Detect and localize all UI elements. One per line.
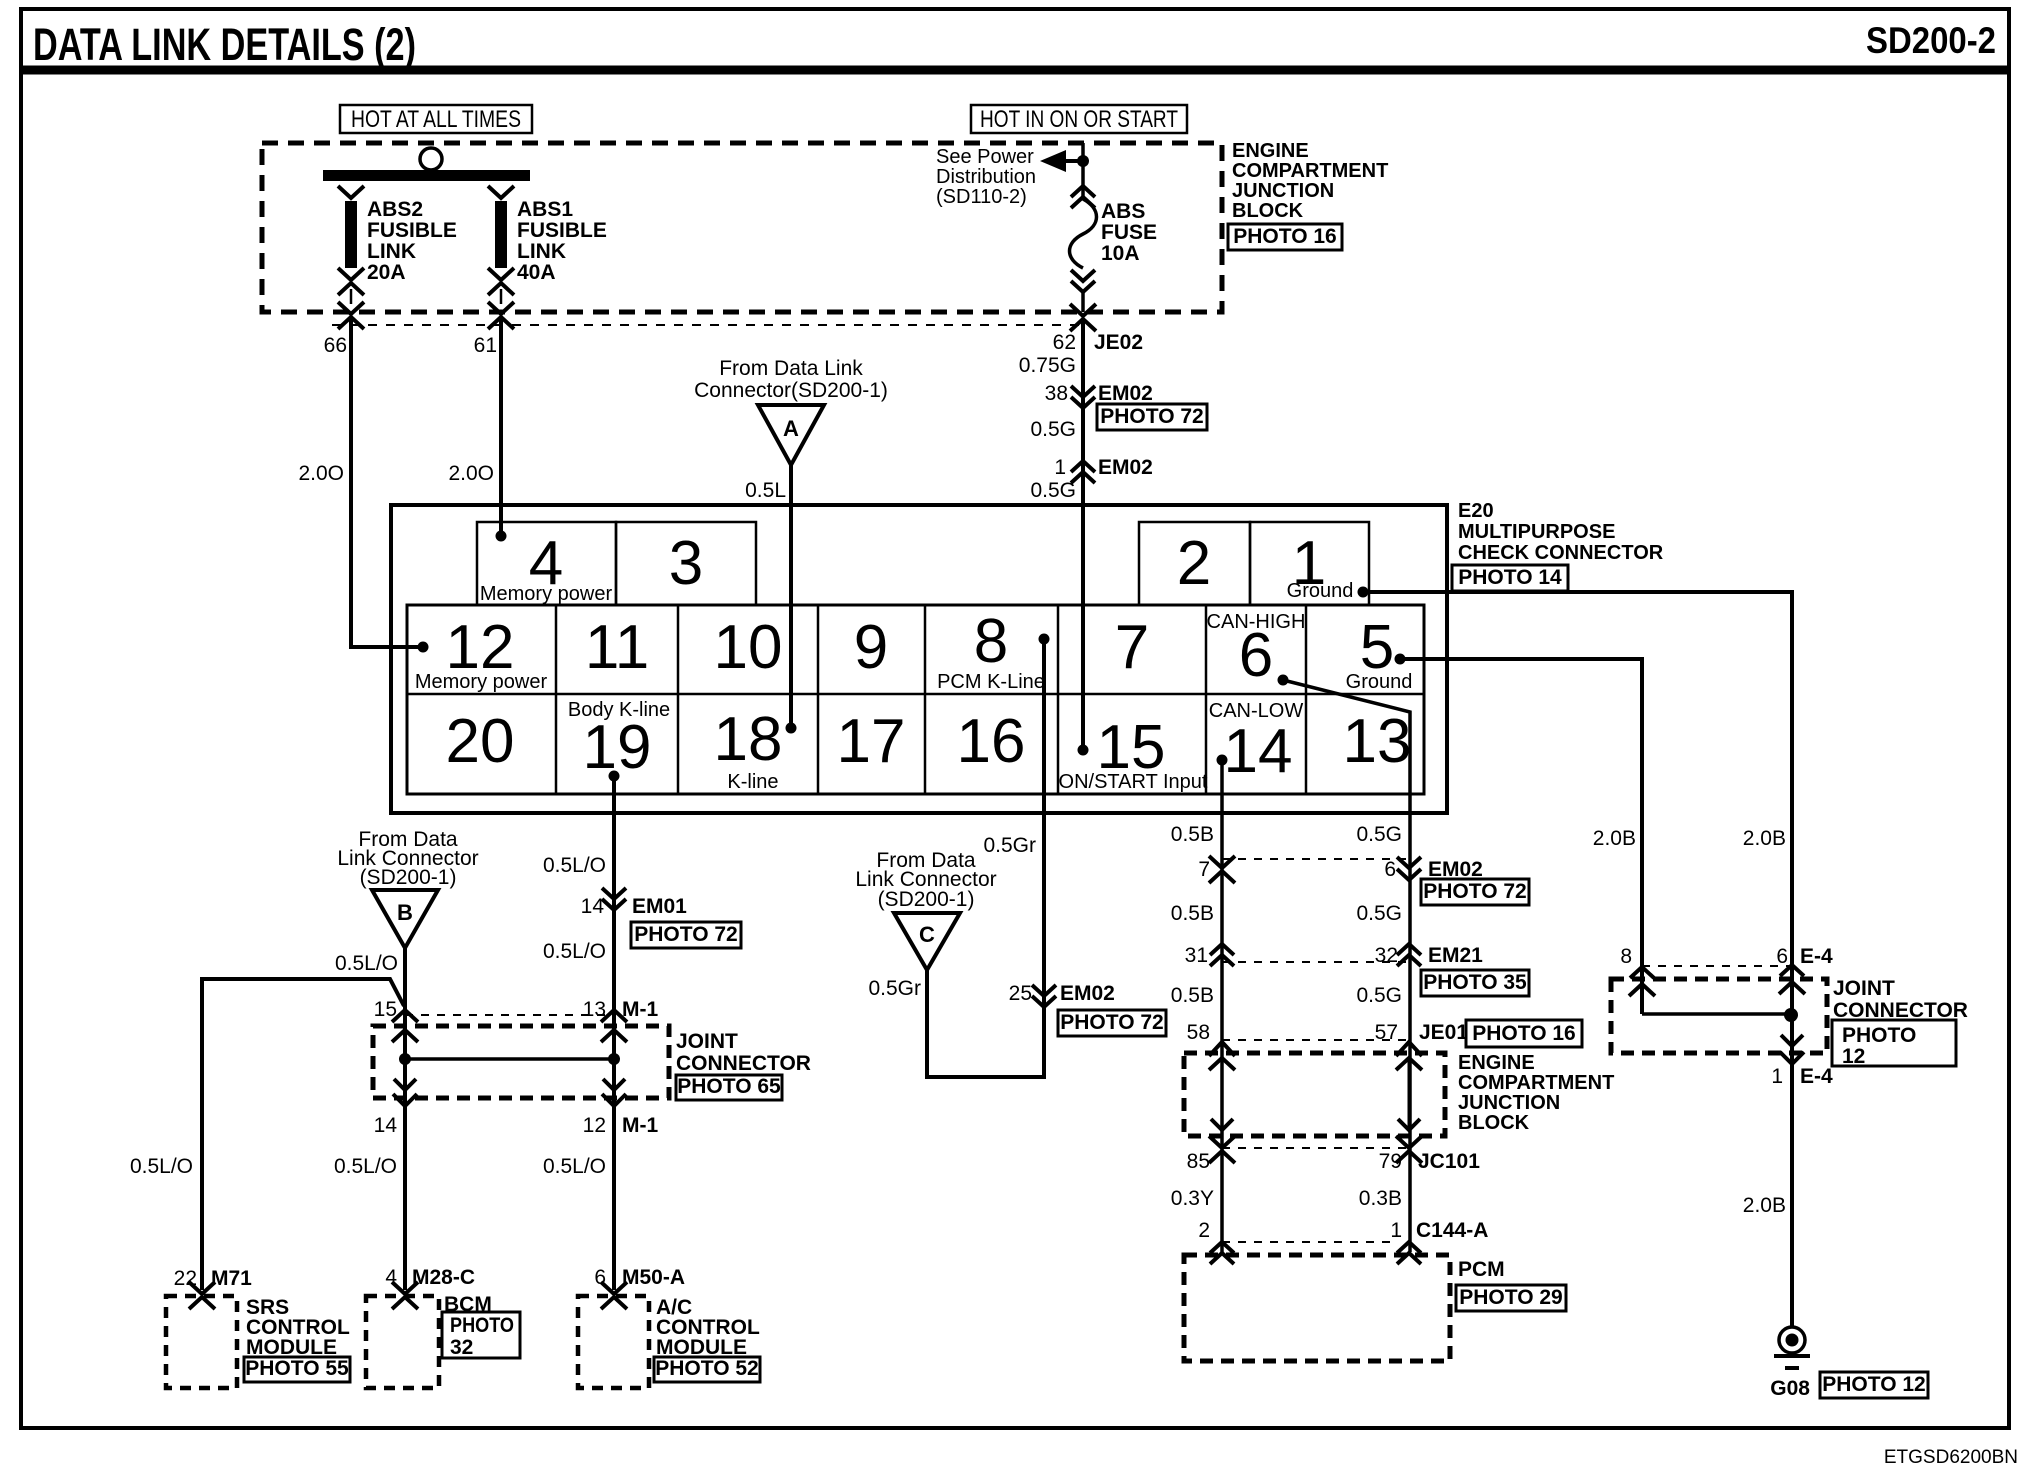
- svg-text:JOINT: JOINT: [1833, 977, 1895, 1000]
- connector EM02 pin 1: [1071, 461, 1095, 472]
- svg-text:0.5G: 0.5G: [1356, 984, 1402, 1007]
- node E20 pin 18: [786, 723, 797, 734]
- connector M-1 pin 13: [601, 1010, 627, 1022]
- svg-text:PHOTO 72: PHOTO 72: [1423, 880, 1526, 903]
- svg-text:2.0B: 2.0B: [1593, 827, 1636, 850]
- E-4 internal bus: [1642, 1012, 1792, 1016]
- ABS fuse output chevrons: [1071, 270, 1095, 281]
- connector M71 pin 22: [189, 1282, 215, 1294]
- ABS fuse input chevrons: [1071, 186, 1095, 197]
- connector E-4 boundary dashed line: [1642, 965, 1792, 967]
- svg-text:3: 3: [669, 529, 703, 598]
- node E20 pin 14: [1217, 755, 1228, 766]
- svg-text:12: 12: [583, 1114, 606, 1137]
- A/C control module dashed box: [578, 1296, 649, 1388]
- engine compartment junction block (lower) dashed box: [1184, 1053, 1445, 1136]
- svg-text:BLOCK: BLOCK: [1458, 1112, 1530, 1134]
- svg-text:8: 8: [1620, 945, 1632, 968]
- PHOTO 12 box (joint connector): [1832, 1020, 1956, 1066]
- svg-text:18: 18: [714, 705, 783, 774]
- svg-text:FUSE: FUSE: [1101, 221, 1157, 244]
- svg-text:Ground: Ground: [1346, 671, 1413, 693]
- connector C144-A boundary dashed line: [1222, 1241, 1398, 1243]
- svg-text:COMPARTMENT: COMPARTMENT: [1458, 1072, 1614, 1094]
- svg-text:JUNCTION: JUNCTION: [1232, 180, 1334, 202]
- data link connector triangle B: [372, 890, 438, 948]
- E20 multipurpose check connector outer box: [391, 505, 1447, 813]
- svg-text:COMPARTMENT: COMPARTMENT: [1232, 160, 1388, 182]
- svg-text:Memory power: Memory power: [480, 583, 613, 605]
- svg-text:PHOTO 16: PHOTO 16: [1233, 225, 1336, 248]
- wire 2.0B from E20 pin 1: [1363, 592, 1792, 1327]
- node E20 pin 15: [1078, 745, 1089, 756]
- svg-text:B: B: [397, 900, 413, 925]
- svg-text:6: 6: [1384, 858, 1396, 881]
- connector E-4 pin 8: [1630, 967, 1654, 978]
- wire 0.5L/O from E20 pin 19: [612, 776, 616, 1059]
- PHOTO 65 box: [676, 1075, 782, 1100]
- PHOTO 16 box (JE01): [1466, 1020, 1582, 1047]
- svg-text:PHOTO 52: PHOTO 52: [655, 1357, 758, 1380]
- svg-text:6: 6: [594, 1266, 606, 1289]
- connector EM02 pin 38: [1071, 386, 1095, 397]
- svg-text:4: 4: [385, 1266, 397, 1289]
- wire 2.0O from pin 61 to E20 pin 4: [499, 316, 503, 536]
- svg-text:20A: 20A: [367, 261, 406, 284]
- branch wire to SRS module: [202, 979, 404, 1290]
- connector EM21 pin 32: [1397, 944, 1421, 955]
- PHOTO 72 box (EM02 pin 25): [1058, 1010, 1166, 1036]
- svg-text:6: 6: [1239, 621, 1273, 690]
- wire 0.5B from E20 pin 14 (CAN-LOW): [1220, 760, 1224, 1252]
- connector EM02 pin 7: [1209, 856, 1235, 868]
- svg-text:LINK: LINK: [367, 240, 416, 263]
- PHOTO 52 box: [654, 1357, 760, 1382]
- SRS control module dashed box: [166, 1296, 237, 1388]
- svg-text:MULTIPURPOSE: MULTIPURPOSE: [1458, 521, 1615, 543]
- svg-text:EM21: EM21: [1428, 944, 1483, 967]
- PHOTO 12 box (ground): [1820, 1372, 1928, 1398]
- connector boundary dashed line: [332, 324, 1083, 326]
- svg-text:EM02: EM02: [1098, 456, 1153, 479]
- node E20 pin 12: [418, 642, 429, 653]
- PHOTO 29 box: [1456, 1285, 1566, 1311]
- fusible link ABS2 20A: [345, 201, 357, 268]
- E20 pin 1 box: [1250, 522, 1369, 605]
- svg-text:0.75G: 0.75G: [1019, 354, 1076, 377]
- fusible link ABS1 connector chevron: [488, 186, 514, 198]
- svg-text:7: 7: [1115, 613, 1149, 682]
- svg-text:(SD110-2): (SD110-2): [936, 186, 1027, 208]
- svg-text:PHOTO 72: PHOTO 72: [1060, 1011, 1163, 1034]
- E-4 output arrow: [1781, 1035, 1803, 1046]
- svg-text:13: 13: [1343, 707, 1412, 776]
- svg-text:(SD200-1): (SD200-1): [360, 866, 457, 889]
- joint connector (E-4) dashed box: [1611, 979, 1827, 1053]
- svg-text:EM02: EM02: [1060, 982, 1115, 1005]
- node E-4: [1784, 1008, 1798, 1022]
- svg-text:ETGSD6200BN: ETGSD6200BN: [1884, 1447, 2018, 1468]
- svg-text:32: 32: [450, 1336, 473, 1359]
- ground G08 symbol: [1779, 1327, 1805, 1353]
- svg-text:20: 20: [446, 707, 515, 776]
- PHOTO 72 box (CAN chain): [1421, 879, 1529, 905]
- svg-text:0.5L/O: 0.5L/O: [543, 940, 606, 963]
- svg-text:PHOTO 72: PHOTO 72: [634, 923, 737, 946]
- svg-text:ENGINE: ENGINE: [1232, 140, 1309, 162]
- svg-text:1: 1: [1390, 1219, 1402, 1242]
- svg-text:0.5G: 0.5G: [1356, 902, 1402, 925]
- E20 pin 4 box: [477, 522, 616, 605]
- svg-text:ON/START Input: ON/START Input: [1059, 771, 1208, 793]
- svg-text:JE02: JE02: [1094, 331, 1143, 354]
- connector C144-A pin 2: [1210, 1242, 1234, 1253]
- connector JC101 pin 79: [1396, 1136, 1422, 1148]
- PHOTO 32 box: [442, 1312, 520, 1358]
- svg-text:PHOTO 65: PHOTO 65: [677, 1075, 781, 1098]
- svg-text:9: 9: [854, 613, 888, 682]
- svg-text:PHOTO 29: PHOTO 29: [1459, 1286, 1562, 1309]
- wire 0.5L/O from triangle B: [403, 948, 407, 1059]
- engine compartment junction block (top) dashed box: [262, 143, 1222, 312]
- svg-text:SD200-2: SD200-2: [1866, 20, 1996, 61]
- svg-text:38: 38: [1045, 382, 1068, 405]
- M-1 output arrows right: [612, 1059, 616, 1290]
- PHOTO 72 box (EM02 top): [1097, 404, 1207, 430]
- node M-1 right: [608, 1053, 620, 1065]
- svg-text:0.5L: 0.5L: [745, 479, 786, 502]
- svg-text:Memory power: Memory power: [415, 671, 548, 693]
- fusible link ABS2 connector chevron: [338, 186, 364, 198]
- svg-text:M-1: M-1: [622, 1114, 658, 1137]
- E20 pin 3 box: [616, 522, 756, 605]
- svg-text:PHOTO 16: PHOTO 16: [1472, 1022, 1575, 1045]
- ABS fuse 10A symbol: [1070, 199, 1097, 268]
- svg-text:0.5B: 0.5B: [1171, 823, 1214, 846]
- data link connector triangle A: [758, 405, 824, 465]
- connector pair below ABS2 link: [338, 268, 364, 280]
- svg-text:CONNECTOR: CONNECTOR: [676, 1052, 811, 1075]
- svg-text:14: 14: [1224, 717, 1293, 786]
- connector M28-C pin 4: [392, 1282, 418, 1294]
- svg-text:(SD200-1): (SD200-1): [878, 888, 975, 911]
- svg-text:EM01: EM01: [632, 895, 687, 918]
- fusible link ABS1 40A: [495, 201, 507, 268]
- svg-text:BLOCK: BLOCK: [1232, 200, 1304, 222]
- svg-text:15: 15: [374, 998, 397, 1021]
- svg-text:Distribution: Distribution: [936, 166, 1036, 188]
- svg-text:M28-C: M28-C: [412, 1266, 475, 1289]
- connector EM21 boundary dashed line: [1222, 961, 1409, 963]
- title separator bar: [21, 66, 2009, 75]
- svg-text:57: 57: [1375, 1021, 1398, 1044]
- svg-text:M71: M71: [211, 1267, 252, 1290]
- connector pair below ABS1 link: [488, 268, 514, 280]
- svg-text:10: 10: [714, 613, 783, 682]
- svg-text:62: 62: [1053, 331, 1076, 354]
- node E20 pin 19: [609, 771, 620, 782]
- svg-text:E20: E20: [1458, 500, 1494, 522]
- svg-text:14: 14: [581, 895, 605, 918]
- svg-text:JC101: JC101: [1418, 1150, 1480, 1173]
- PHOTO 16 box (junction block top): [1228, 224, 1342, 250]
- wire from fuse to junction block edge: [1081, 292, 1085, 312]
- M-1 output arrows left: [403, 1059, 407, 1290]
- svg-text:40A: 40A: [517, 261, 556, 284]
- battery feed circle: [420, 148, 442, 170]
- connector EM01 pin 14: [602, 888, 626, 899]
- svg-text:58: 58: [1187, 1021, 1210, 1044]
- svg-text:0.5L/O: 0.5L/O: [543, 1155, 606, 1178]
- svg-text:0.5L/O: 0.5L/O: [334, 1155, 397, 1178]
- svg-text:ENGINE: ENGINE: [1458, 1052, 1535, 1074]
- svg-text:PCM: PCM: [1458, 1258, 1505, 1281]
- svg-text:ABS2: ABS2: [367, 198, 423, 221]
- junction block pass-through arrows: [1209, 1058, 1235, 1070]
- svg-text:8: 8: [974, 607, 1008, 676]
- E20 pin 2 box: [1139, 522, 1250, 605]
- svg-text:13: 13: [583, 998, 606, 1021]
- svg-text:PCM K-Line: PCM K-Line: [937, 671, 1045, 693]
- connector EM02 pin 6: [1397, 857, 1421, 868]
- connector JC101 pin 85: [1209, 1136, 1235, 1148]
- svg-text:2.0B: 2.0B: [1743, 1194, 1786, 1217]
- svg-text:0.5Gr: 0.5Gr: [868, 977, 921, 1000]
- joint connector (M-1) dashed box: [373, 1026, 669, 1098]
- node E20 pin 4: [496, 531, 507, 542]
- svg-text:0.5L/O: 0.5L/O: [335, 952, 398, 975]
- svg-text:Connector(SD200-1): Connector(SD200-1): [694, 379, 888, 402]
- svg-text:PHOTO 72: PHOTO 72: [1100, 405, 1203, 428]
- svg-text:0.5B: 0.5B: [1171, 984, 1214, 1007]
- node E20 pin 6: [1278, 675, 1289, 686]
- svg-text:17: 17: [837, 707, 906, 776]
- svg-text:0.3Y: 0.3Y: [1171, 1187, 1214, 1210]
- svg-text:Ground: Ground: [1287, 580, 1354, 602]
- bus bar: [323, 170, 530, 181]
- svg-text:M50-A: M50-A: [622, 1266, 685, 1289]
- wire 2.0O from pin 66 to E20 pin 12: [349, 316, 353, 649]
- svg-text:1: 1: [1771, 1065, 1783, 1088]
- svg-text:PHOTO 55: PHOTO 55: [245, 1357, 349, 1380]
- svg-text:2: 2: [1177, 529, 1211, 598]
- svg-text:See Power: See Power: [936, 146, 1034, 168]
- PHOTO 55 box: [244, 1357, 350, 1382]
- svg-text:2.0O: 2.0O: [298, 462, 344, 485]
- PHOTO 72 box (EM01): [631, 922, 741, 948]
- svg-text:11: 11: [585, 613, 649, 682]
- junction block exit connector pin 62: [1070, 304, 1096, 316]
- connector EM02 boundary dashed line: [1222, 858, 1409, 860]
- connector EM02 pin 25: [1032, 985, 1056, 996]
- svg-text:PHOTO 14: PHOTO 14: [1458, 566, 1562, 589]
- connector JE01 boundary dashed line: [1222, 1039, 1409, 1041]
- svg-text:10A: 10A: [1101, 242, 1140, 265]
- svg-text:0.5L/O: 0.5L/O: [130, 1155, 193, 1178]
- svg-text:JOINT: JOINT: [676, 1030, 738, 1053]
- svg-text:From Data Link: From Data Link: [719, 357, 863, 380]
- svg-text:M-1: M-1: [622, 998, 658, 1021]
- svg-text:0.5G: 0.5G: [1030, 479, 1076, 502]
- node E20 pin 5: [1395, 654, 1406, 665]
- svg-text:1: 1: [1054, 456, 1066, 479]
- svg-text:CHECK CONNECTOR: CHECK CONNECTOR: [1458, 542, 1664, 564]
- BCM dashed box: [366, 1296, 439, 1388]
- svg-text:85: 85: [1187, 1150, 1210, 1173]
- svg-text:EM02: EM02: [1098, 382, 1153, 405]
- wire from junction block top to ABS fuse: [1081, 143, 1085, 199]
- svg-text:DATA LINK DETAILS (2): DATA LINK DETAILS (2): [33, 19, 416, 70]
- svg-text:7: 7: [1198, 858, 1210, 881]
- svg-text:E-4: E-4: [1800, 945, 1833, 968]
- connector M-1 pin 15: [392, 1010, 418, 1022]
- connector JE01 pin 57: [1396, 1042, 1422, 1056]
- svg-text:12: 12: [1842, 1045, 1865, 1068]
- data link connector triangle C: [894, 913, 960, 970]
- svg-text:32: 32: [1375, 944, 1398, 967]
- connector C144-A pin 1: [1397, 1242, 1421, 1253]
- arrow to power distribution: [1040, 150, 1066, 172]
- svg-text:G08: G08: [1770, 1377, 1810, 1400]
- svg-text:K-line: K-line: [727, 771, 778, 793]
- node E20 pin 8: [1039, 634, 1050, 645]
- svg-text:LINK: LINK: [517, 240, 566, 263]
- svg-text:JE01: JE01: [1419, 1021, 1468, 1044]
- E20 main pin grid: [407, 605, 1424, 794]
- wire 0.5Gr from E20 pin 8 to triangle C: [927, 639, 1044, 1077]
- svg-text:25: 25: [1009, 982, 1032, 1005]
- PHOTO 14 box (E20): [1452, 565, 1568, 591]
- svg-text:66: 66: [324, 334, 347, 357]
- svg-text:PHOTO 12: PHOTO 12: [1822, 1373, 1925, 1396]
- HOT IN ON OR START label box: [971, 105, 1187, 133]
- svg-text:HOT AT ALL TIMES: HOT AT ALL TIMES: [351, 106, 521, 133]
- svg-text:FUSIBLE: FUSIBLE: [367, 219, 457, 242]
- M-1 joint connector boundary dashed line: [405, 1014, 614, 1016]
- node E20 pin 1: [1358, 587, 1369, 598]
- svg-text:16: 16: [957, 707, 1026, 776]
- svg-text:0.5Gr: 0.5Gr: [983, 834, 1036, 857]
- svg-text:22: 22: [174, 1267, 197, 1290]
- svg-text:79: 79: [1379, 1150, 1402, 1173]
- svg-text:0.5B: 0.5B: [1171, 902, 1214, 925]
- connector JC101 boundary dashed line: [1222, 1147, 1409, 1149]
- connector E-4 pin 6: [1780, 965, 1804, 976]
- node M-1 left: [399, 1053, 411, 1065]
- svg-text:0.5G: 0.5G: [1356, 823, 1402, 846]
- svg-text:2: 2: [1198, 1219, 1210, 1242]
- wire 2.0B from E20 pin 5: [1400, 659, 1642, 1014]
- svg-text:A: A: [783, 416, 799, 441]
- junction block exit connector pin 61: [488, 302, 514, 314]
- PHOTO 35 box: [1421, 970, 1529, 996]
- svg-text:61: 61: [474, 334, 497, 357]
- svg-text:C144-A: C144-A: [1416, 1219, 1488, 1242]
- svg-text:0.5G: 0.5G: [1030, 418, 1076, 441]
- svg-text:FUSIBLE: FUSIBLE: [517, 219, 607, 242]
- svg-text:PHOTO 35: PHOTO 35: [1423, 971, 1527, 994]
- connector EM21 pin 31: [1210, 944, 1234, 955]
- svg-text:JUNCTION: JUNCTION: [1458, 1092, 1560, 1114]
- connector M50-A pin 6: [601, 1282, 627, 1294]
- svg-text:PHOTO: PHOTO: [450, 1314, 514, 1337]
- joint connector internal bus: [405, 1057, 614, 1061]
- connector JE01 pin 58: [1209, 1042, 1235, 1056]
- svg-text:HOT IN ON OR START: HOT IN ON OR START: [980, 106, 1178, 133]
- svg-text:ABS1: ABS1: [517, 198, 573, 221]
- wire 0.5L from triangle A to E20 pin 18: [789, 465, 793, 728]
- wire 0.75G / 0.5G down to E20 pin 15: [1081, 318, 1085, 750]
- svg-text:2.0B: 2.0B: [1743, 827, 1786, 850]
- svg-text:0.5L/O: 0.5L/O: [543, 854, 606, 877]
- svg-text:2.0O: 2.0O: [448, 462, 494, 485]
- node at ABS fuse feed: [1077, 155, 1089, 167]
- svg-text:C: C: [919, 922, 935, 947]
- HOT AT ALL TIMES label box: [340, 105, 532, 133]
- svg-text:ABS: ABS: [1101, 200, 1145, 223]
- junction block exit connector pin 66: [338, 302, 364, 314]
- svg-text:PHOTO: PHOTO: [1842, 1024, 1916, 1047]
- svg-text:31: 31: [1185, 944, 1208, 967]
- svg-text:0.3B: 0.3B: [1359, 1187, 1402, 1210]
- PCM dashed box: [1184, 1255, 1450, 1361]
- svg-text:E-4: E-4: [1800, 1065, 1833, 1088]
- svg-text:14: 14: [374, 1114, 398, 1137]
- svg-text:6: 6: [1776, 945, 1788, 968]
- wire 0.5G from E20 pin 6 (CAN-HIGH): [1283, 680, 1410, 1252]
